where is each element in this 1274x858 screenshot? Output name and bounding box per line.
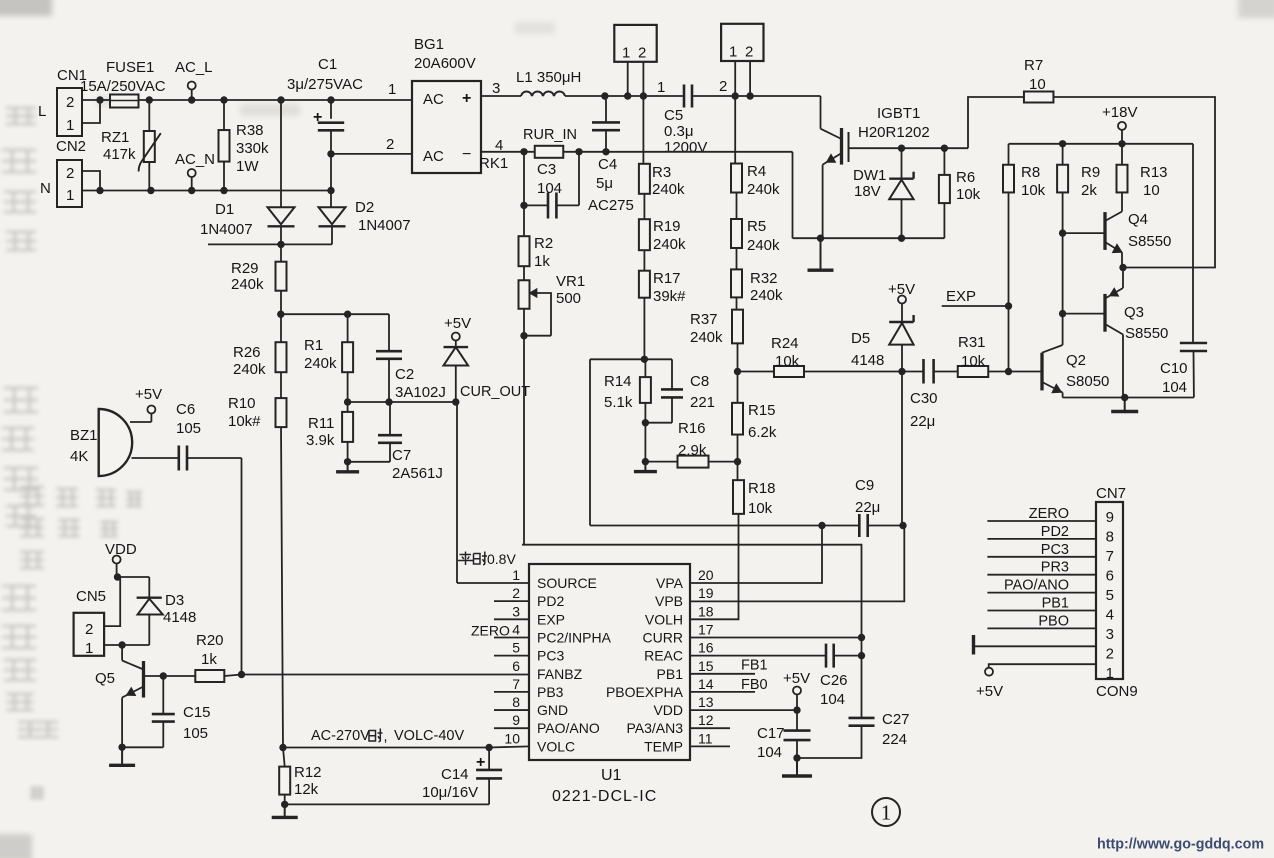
svg-text:2: 2	[1106, 646, 1114, 663]
svg-text:104: 104	[1162, 379, 1187, 396]
svg-text:RUR_IN: RUR_IN	[523, 127, 577, 143]
svg-text:7: 7	[1106, 548, 1114, 565]
svg-text:C26: C26	[820, 672, 848, 689]
svg-text:5: 5	[1106, 587, 1114, 604]
svg-text:1: 1	[729, 44, 737, 61]
svg-text:R14: R14	[604, 373, 632, 390]
svg-text:Q4: Q4	[1128, 211, 1148, 228]
svg-text:22μ: 22μ	[910, 413, 935, 430]
svg-text:12: 12	[698, 712, 714, 728]
svg-text:20A600V: 20A600V	[414, 55, 476, 72]
svg-text:Q2: Q2	[1066, 352, 1086, 369]
svg-text:10k: 10k	[961, 353, 986, 370]
svg-text:18: 18	[698, 603, 714, 619]
svg-text:RZ1: RZ1	[101, 129, 129, 146]
svg-text:C2: C2	[395, 366, 414, 383]
svg-text:3: 3	[492, 80, 500, 97]
svg-text:1: 1	[881, 801, 892, 825]
svg-text:VDD: VDD	[105, 541, 137, 558]
svg-text:R12: R12	[294, 764, 322, 781]
svg-text:C5: C5	[664, 107, 683, 124]
svg-text:D5: D5	[851, 330, 870, 347]
svg-text:FB0: FB0	[741, 677, 768, 693]
svg-text:C14: C14	[441, 766, 469, 783]
svg-text:FB1: FB1	[741, 658, 768, 674]
svg-text:ZERO: ZERO	[471, 623, 510, 639]
svg-text:11: 11	[698, 730, 713, 746]
svg-text:S8050: S8050	[1066, 373, 1109, 390]
svg-text:REAC: REAC	[644, 648, 683, 664]
svg-text:DW1: DW1	[853, 167, 886, 184]
svg-text:H20R1202: H20R1202	[858, 124, 930, 141]
svg-text:+5V: +5V	[444, 315, 471, 332]
svg-text:105: 105	[176, 420, 201, 437]
svg-text:2.9k: 2.9k	[678, 442, 707, 459]
svg-text:R38: R38	[236, 122, 264, 139]
svg-text:PR3: PR3	[1041, 560, 1069, 576]
svg-text:6.2k: 6.2k	[748, 424, 777, 441]
svg-text:3: 3	[512, 603, 520, 619]
svg-text:BG1: BG1	[414, 36, 444, 53]
svg-text:3A102J: 3A102J	[395, 384, 446, 401]
svg-text:9: 9	[1106, 509, 1114, 526]
svg-text:S8550: S8550	[1128, 233, 1171, 250]
svg-text:3μ/275VAC: 3μ/275VAC	[287, 76, 363, 93]
svg-text:1: 1	[85, 640, 93, 657]
svg-text:PAO/ANO: PAO/ANO	[1004, 578, 1069, 594]
svg-text:20: 20	[698, 567, 714, 583]
svg-text:C6: C6	[176, 401, 195, 418]
svg-text:2: 2	[745, 44, 753, 61]
svg-text:105: 105	[183, 725, 208, 742]
svg-text:PC3: PC3	[537, 648, 564, 664]
svg-text:240k: 240k	[690, 329, 723, 346]
svg-text:2: 2	[66, 94, 74, 111]
svg-text:TEMP: TEMP	[644, 738, 683, 754]
svg-text:2: 2	[512, 585, 520, 601]
svg-text:C4: C4	[598, 156, 617, 173]
svg-text:2: 2	[85, 621, 93, 638]
svg-text:AC275: AC275	[588, 197, 634, 214]
svg-text:Q5: Q5	[95, 670, 115, 687]
svg-text:AC: AC	[423, 91, 444, 108]
svg-text:R5: R5	[747, 218, 766, 235]
svg-text:R19: R19	[653, 218, 681, 235]
svg-text:4148: 4148	[851, 352, 884, 369]
svg-text:CN5: CN5	[76, 588, 106, 605]
svg-text:10k#: 10k#	[228, 413, 261, 430]
svg-text:R13: R13	[1140, 164, 1168, 181]
svg-text:SOURCE: SOURCE	[537, 575, 597, 591]
svg-text:10: 10	[1029, 76, 1046, 93]
svg-text:R6: R6	[956, 169, 975, 186]
svg-text:R16: R16	[678, 420, 706, 437]
svg-text:240k: 240k	[652, 181, 685, 198]
svg-text:221: 221	[690, 394, 715, 411]
svg-text:R32: R32	[750, 270, 778, 287]
svg-text:10μ/16V: 10μ/16V	[422, 784, 478, 801]
svg-text:VPB: VPB	[655, 593, 683, 609]
svg-text:EXP: EXP	[946, 288, 976, 305]
svg-text:6: 6	[1106, 568, 1114, 585]
svg-text:CN7: CN7	[1096, 485, 1126, 502]
svg-text:0221-DCL-IC: 0221-DCL-IC	[552, 788, 657, 805]
svg-text:7: 7	[512, 676, 520, 692]
svg-text:2: 2	[66, 165, 74, 182]
svg-text:10k: 10k	[956, 186, 981, 203]
svg-text:19: 19	[698, 585, 714, 601]
svg-text:RK1: RK1	[479, 155, 508, 172]
svg-text:12k: 12k	[294, 781, 319, 798]
svg-text:1k: 1k	[201, 651, 217, 668]
svg-text:2: 2	[638, 45, 646, 62]
svg-text:VOLH: VOLH	[645, 611, 683, 627]
svg-text:PC3: PC3	[1041, 542, 1069, 558]
svg-text:R20: R20	[196, 632, 224, 649]
svg-text:C17: C17	[757, 725, 785, 742]
svg-text:C9: C9	[855, 477, 874, 494]
svg-text:104: 104	[757, 744, 782, 761]
svg-text:PB1: PB1	[1042, 596, 1069, 612]
svg-text:PB1: PB1	[657, 666, 684, 682]
svg-text:1W: 1W	[236, 158, 259, 175]
svg-text:2k: 2k	[1081, 182, 1097, 199]
svg-text:C15: C15	[183, 704, 211, 721]
svg-text:R17: R17	[653, 270, 681, 287]
svg-text:GND: GND	[537, 702, 568, 718]
svg-text:VR1: VR1	[556, 273, 585, 290]
svg-text:N: N	[40, 180, 51, 197]
svg-text:224: 224	[882, 731, 907, 748]
svg-text:R7: R7	[1024, 57, 1043, 74]
svg-text:330k: 330k	[236, 140, 269, 157]
svg-text:4: 4	[512, 621, 520, 637]
svg-text:10k: 10k	[1021, 182, 1046, 199]
svg-text:+5V: +5V	[976, 683, 1003, 700]
svg-text:240k: 240k	[750, 287, 783, 304]
svg-text:EXP: EXP	[537, 611, 565, 627]
svg-text:4148: 4148	[163, 609, 196, 626]
svg-text:VOLC-40V: VOLC-40V	[394, 728, 464, 744]
svg-text:6: 6	[512, 658, 520, 674]
svg-text:2: 2	[386, 136, 394, 153]
svg-text:FANBZ: FANBZ	[537, 666, 583, 682]
svg-text:1: 1	[657, 79, 665, 96]
svg-text:1k: 1k	[534, 253, 550, 270]
svg-text:U1: U1	[601, 767, 622, 784]
svg-text:PA3/AN3: PA3/AN3	[626, 720, 683, 736]
svg-text:5μ: 5μ	[596, 175, 613, 192]
svg-text:ZERO: ZERO	[1029, 506, 1069, 522]
svg-text:PBO: PBO	[1038, 613, 1069, 629]
svg-text:15: 15	[698, 658, 714, 674]
svg-text:,: ,	[384, 729, 388, 745]
svg-text:22μ: 22μ	[855, 499, 880, 516]
svg-text:CN2: CN2	[56, 138, 86, 155]
svg-text:Q3: Q3	[1124, 304, 1144, 321]
svg-text:13: 13	[698, 694, 714, 710]
svg-text:C27: C27	[882, 711, 910, 728]
svg-text:R1: R1	[304, 337, 323, 354]
svg-text:C1: C1	[318, 56, 337, 73]
svg-text:1N4007: 1N4007	[358, 217, 411, 234]
svg-text:4: 4	[1106, 607, 1114, 624]
svg-text:CON9: CON9	[1096, 683, 1138, 700]
svg-text:R3: R3	[652, 164, 671, 181]
svg-text:AC_L: AC_L	[175, 59, 213, 76]
svg-text:9: 9	[512, 712, 520, 728]
svg-text:1: 1	[1106, 665, 1114, 682]
svg-text:C3: C3	[537, 161, 556, 178]
svg-text:R9: R9	[1081, 164, 1100, 181]
svg-text:D2: D2	[355, 199, 374, 216]
svg-text:17: 17	[698, 621, 714, 637]
svg-text:IGBT1: IGBT1	[877, 105, 920, 122]
svg-text:FUSE1: FUSE1	[106, 59, 154, 76]
svg-text:500: 500	[556, 290, 581, 307]
svg-text:240k: 240k	[653, 236, 686, 253]
svg-text:VDD: VDD	[653, 702, 683, 718]
svg-text:PAO/ANO: PAO/ANO	[537, 720, 600, 736]
svg-text:417k: 417k	[103, 146, 136, 163]
svg-text:8: 8	[1106, 529, 1114, 546]
svg-text:5: 5	[512, 640, 520, 656]
svg-text:http://www.go-gddq.com: http://www.go-gddq.com	[1097, 837, 1264, 853]
svg-text:10: 10	[1143, 182, 1160, 199]
svg-text:VOLC: VOLC	[537, 738, 575, 754]
svg-text:240k: 240k	[747, 181, 780, 198]
svg-text:PB3: PB3	[537, 684, 564, 700]
svg-text:R18: R18	[748, 480, 776, 497]
svg-text:240k: 240k	[304, 355, 337, 372]
svg-text:R26: R26	[233, 344, 261, 361]
svg-text:−: −	[462, 146, 471, 163]
svg-text:240k: 240k	[231, 276, 264, 293]
svg-text:1200V: 1200V	[664, 139, 707, 156]
svg-text:3.9k: 3.9k	[306, 432, 335, 449]
svg-text:C10: C10	[1160, 360, 1188, 377]
svg-text:C8: C8	[690, 373, 709, 390]
svg-text:R2: R2	[534, 235, 553, 252]
svg-text:R15: R15	[748, 402, 776, 419]
svg-text:+5V: +5V	[783, 670, 810, 687]
svg-text:1: 1	[66, 187, 74, 204]
svg-text:PD2: PD2	[537, 593, 564, 609]
svg-text:PD2: PD2	[1041, 524, 1069, 540]
svg-text:R10: R10	[228, 395, 256, 412]
svg-text:10k: 10k	[775, 353, 800, 370]
svg-text:0.8V: 0.8V	[487, 551, 516, 567]
svg-text:AC_N: AC_N	[175, 151, 215, 168]
svg-text:CUR_OUT: CUR_OUT	[460, 384, 530, 400]
svg-text:VPA: VPA	[656, 575, 684, 591]
svg-text:18V: 18V	[854, 183, 881, 200]
svg-text:C7: C7	[392, 447, 411, 464]
svg-text:+5V: +5V	[135, 386, 162, 403]
svg-text:39k#: 39k#	[653, 288, 686, 305]
svg-text:R8: R8	[1021, 164, 1040, 181]
svg-text:1: 1	[512, 567, 520, 583]
svg-text:R29: R29	[231, 260, 259, 277]
svg-text:10: 10	[504, 730, 520, 746]
svg-text:R37: R37	[690, 311, 718, 328]
svg-text:14: 14	[698, 676, 714, 692]
svg-text:2A561J: 2A561J	[392, 465, 443, 482]
svg-text:R31: R31	[958, 334, 986, 351]
svg-text:16: 16	[698, 640, 714, 656]
svg-text:AC-270V: AC-270V	[311, 728, 370, 744]
svg-text:L1 350μH: L1 350μH	[516, 69, 581, 86]
svg-text:R4: R4	[747, 163, 766, 180]
svg-text:10k: 10k	[748, 500, 773, 517]
svg-text:3: 3	[1106, 626, 1114, 643]
svg-text:R11: R11	[308, 415, 334, 432]
svg-text:CURR: CURR	[643, 629, 683, 645]
svg-text:AC: AC	[423, 148, 444, 165]
svg-text:4K: 4K	[70, 448, 88, 465]
svg-text:2: 2	[719, 78, 727, 95]
svg-text:D3: D3	[165, 592, 184, 609]
svg-text:104: 104	[537, 180, 562, 197]
svg-text:S8550: S8550	[1125, 325, 1168, 342]
svg-text:PC2/INPHA: PC2/INPHA	[537, 629, 612, 645]
svg-text:+: +	[462, 90, 471, 107]
svg-text:240k: 240k	[233, 361, 266, 378]
svg-text:R24: R24	[771, 335, 799, 352]
svg-text:L: L	[38, 103, 46, 120]
svg-text:C30: C30	[910, 390, 938, 407]
svg-text:1: 1	[66, 117, 74, 134]
svg-text:1N4007: 1N4007	[200, 221, 253, 238]
svg-text:BZ1: BZ1	[70, 427, 98, 444]
svg-text:+: +	[476, 754, 485, 771]
svg-text:240k: 240k	[747, 237, 780, 254]
svg-text:0.3μ: 0.3μ	[664, 123, 694, 140]
svg-text:1: 1	[388, 81, 396, 98]
svg-text:8: 8	[512, 694, 520, 710]
svg-text:15A/250VAC: 15A/250VAC	[80, 78, 166, 95]
svg-text:5.1k: 5.1k	[604, 394, 633, 411]
svg-text:1: 1	[622, 45, 630, 62]
svg-text:104: 104	[820, 691, 845, 708]
svg-text:PBOEXPHA: PBOEXPHA	[606, 684, 684, 700]
svg-text:D1: D1	[215, 201, 234, 218]
svg-text:+18V: +18V	[1102, 104, 1137, 121]
